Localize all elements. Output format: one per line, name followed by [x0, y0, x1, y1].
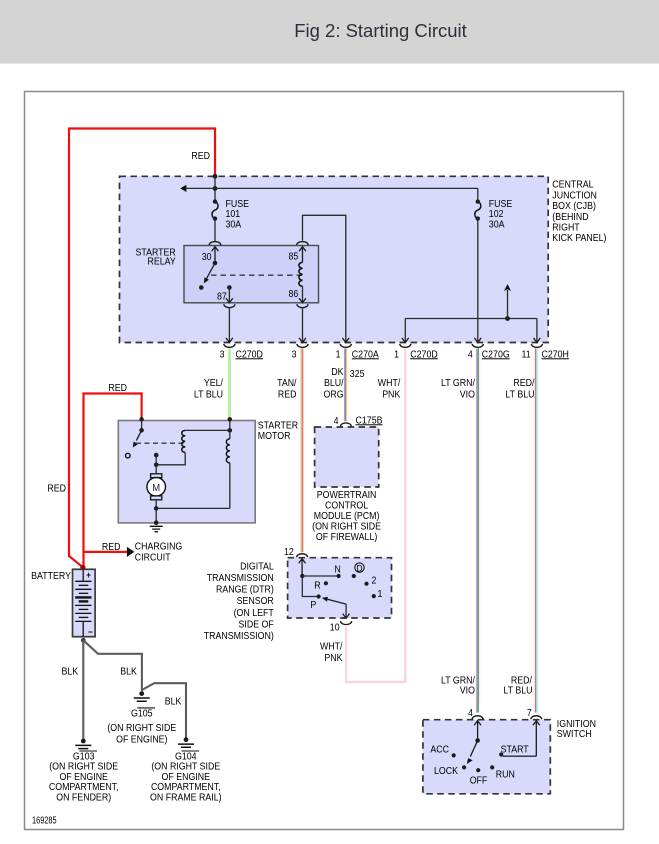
- fuse F102: [475, 199, 481, 220]
- svg-text:M: M: [152, 482, 160, 494]
- pin 86 connector arc: [297, 304, 308, 307]
- wire to P contact: [302, 576, 318, 597]
- motor terminal top: [151, 474, 162, 478]
- svg-text:BLK: BLK: [165, 696, 182, 707]
- wire 87 to C270D: [228, 308, 230, 341]
- svg-text:Fig 2: Starting Circuit: Fig 2: Starting Circuit: [294, 20, 467, 41]
- ground G104: [178, 737, 194, 747]
- wire pull-in bottom: [156, 452, 185, 464]
- svg-text:DIGITAL: DIGITAL: [240, 561, 274, 572]
- svg-text:RANGE (DTR): RANGE (DTR): [216, 585, 274, 596]
- svg-text:OF ENGINE): OF ENGINE): [116, 735, 167, 746]
- svg-text:30A: 30A: [226, 219, 242, 230]
- svg-text:DK: DK: [331, 367, 344, 378]
- wire feed to fuse 101: [214, 176, 216, 241]
- hold-in winding: [226, 439, 229, 463]
- pin 85 connector arc: [297, 242, 309, 245]
- contact P: [317, 594, 321, 598]
- svg-text:RELAY: RELAY: [148, 257, 177, 268]
- header bar: [0, 0, 659, 64]
- wire WHT/PNK: [346, 348, 405, 682]
- svg-text:VIO: VIO: [460, 390, 476, 401]
- solenoid dashed link: [136, 442, 184, 444]
- svg-text:WHT/: WHT/: [378, 378, 401, 389]
- svg-text:N: N: [334, 565, 340, 576]
- svg-text:−: −: [88, 627, 93, 637]
- svg-text:ACC: ACC: [430, 745, 449, 756]
- motor terminal bottom: [151, 496, 162, 500]
- svg-text:1: 1: [377, 589, 382, 600]
- pin 7 arrow: [533, 721, 540, 757]
- svg-text:BLK: BLK: [120, 667, 137, 678]
- svg-text:PNK: PNK: [324, 653, 343, 664]
- wire bus to C270H pin 11: [536, 319, 538, 342]
- svg-text:C270D: C270D: [410, 349, 437, 360]
- svg-text:MODULE (PCM): MODULE (PCM): [314, 511, 380, 522]
- svg-text:OFF: OFF: [470, 775, 488, 786]
- svg-text:RIGHT: RIGHT: [552, 223, 579, 234]
- svg-text:3: 3: [292, 349, 297, 360]
- svg-text:1: 1: [336, 349, 341, 360]
- wire to N contact: [302, 575, 338, 577]
- ground G105: [134, 691, 150, 701]
- svg-text:LT GRN/: LT GRN/: [441, 378, 475, 389]
- svg-text:VIO: VIO: [460, 686, 476, 697]
- svg-text:30A: 30A: [489, 219, 505, 230]
- svg-text:YEL/: YEL/: [204, 378, 223, 389]
- svg-text:BLU/: BLU/: [324, 378, 344, 389]
- contact 1: [372, 594, 376, 598]
- pin 85 arrow: [299, 247, 306, 263]
- ignition switch arm: [470, 741, 477, 757]
- contact LOCK: [462, 765, 466, 769]
- svg-text:169285: 169285: [32, 815, 57, 826]
- wire DK BLU/ORG: [345, 348, 346, 421]
- svg-text:ON FRAME RAIL): ON FRAME RAIL): [150, 792, 222, 803]
- svg-text:TAN/: TAN/: [277, 378, 297, 389]
- contact ACC: [452, 753, 456, 757]
- svg-text:JUNCTION: JUNCTION: [552, 190, 597, 201]
- solenoid switch contact: [126, 453, 131, 458]
- outer frame: [25, 92, 624, 830]
- svg-text:SENSOR: SENSOR: [237, 596, 274, 607]
- contact OFF: [476, 768, 480, 772]
- CJB bus to connectors: [405, 318, 537, 320]
- svg-text:RED: RED: [47, 484, 66, 495]
- relay internal dashed link: [211, 274, 303, 276]
- svg-text:LOCK: LOCK: [434, 766, 458, 777]
- svg-text:C175B: C175B: [356, 415, 383, 426]
- node bus tap: [505, 316, 510, 321]
- svg-text:G105: G105: [131, 708, 153, 719]
- relay switch pivot: [213, 261, 218, 266]
- svg-text:(ON LEFT: (ON LEFT: [234, 608, 274, 619]
- svg-text:CHARGING: CHARGING: [135, 541, 183, 552]
- node motor feed: [154, 463, 159, 468]
- starter motor M1: [118, 421, 255, 523]
- wire motor to ground: [155, 500, 157, 523]
- pin 87 wire and arrow: [228, 288, 230, 303]
- svg-text:10: 10: [330, 623, 340, 634]
- svg-text:+: +: [86, 570, 91, 580]
- svg-text:RED: RED: [278, 390, 297, 401]
- wire pin 7 to START: [503, 755, 537, 757]
- svg-text:CIRCUIT: CIRCUIT: [135, 552, 171, 563]
- pin 7 connector arc: [531, 716, 542, 719]
- solenoid switch arm: [136, 430, 141, 440]
- pin 4 arrow: [474, 721, 481, 741]
- svg-text:4: 4: [334, 416, 339, 427]
- svg-text:12: 12: [284, 547, 294, 558]
- svg-text:BATTERY: BATTERY: [31, 571, 71, 582]
- svg-text:LT BLU: LT BLU: [503, 686, 532, 697]
- svg-text:C270G: C270G: [482, 349, 510, 360]
- svg-text:CONTROL: CONTROL: [325, 501, 369, 512]
- node battery positive: [80, 565, 85, 570]
- wire bus to C270D pin 1: [404, 319, 406, 342]
- pin 30 arrow: [212, 247, 219, 263]
- svg-text:(BEHIND: (BEHIND: [552, 212, 588, 223]
- node pin12 branch: [300, 574, 304, 578]
- wire wiper to pin 10: [345, 604, 347, 617]
- solenoid switch pivot: [139, 428, 144, 433]
- svg-text:1: 1: [394, 349, 399, 360]
- node yel wire junction: [228, 428, 233, 433]
- svg-text:START: START: [501, 745, 529, 756]
- svg-text:TRANSMISSION): TRANSMISSION): [204, 631, 274, 642]
- relay coil: [299, 262, 303, 286]
- pin 4 connector arc: [472, 716, 483, 719]
- wire TAN/RED: [301, 348, 302, 552]
- svg-text:SWITCH: SWITCH: [557, 729, 592, 740]
- svg-text:RED: RED: [102, 542, 121, 553]
- node battery negative junction: [81, 638, 86, 643]
- connector arcs below CJB: [224, 344, 235, 347]
- svg-text:LT BLU: LT BLU: [505, 390, 534, 401]
- wire BLK to G103: [82, 640, 84, 739]
- contact R: [324, 581, 328, 585]
- node red entry: [139, 417, 143, 421]
- svg-text:ORG: ORG: [324, 390, 344, 401]
- wire winding top link: [185, 429, 230, 431]
- wire motor feed: [155, 455, 157, 474]
- svg-text:4: 4: [468, 708, 473, 719]
- digital transmission range sensor DTR: [288, 558, 392, 618]
- contact START: [499, 752, 503, 756]
- svg-text:325: 325: [350, 369, 365, 380]
- svg-text:87: 87: [217, 292, 227, 303]
- wire entry to pivot: [141, 419, 143, 430]
- svg-text:11: 11: [522, 349, 531, 360]
- node pin 87: [227, 285, 232, 290]
- wire RED starter solenoid feed: [84, 394, 142, 569]
- fuse F101: [212, 199, 218, 220]
- svg-text:KICK PANEL): KICK PANEL): [552, 233, 606, 244]
- wire 86 to C270D pin 3: [302, 308, 304, 341]
- svg-text:CENTRAL: CENTRAL: [552, 180, 594, 191]
- motor M: [147, 478, 166, 497]
- svg-text:86: 86: [289, 289, 299, 300]
- relay switch arm: [206, 263, 215, 279]
- svg-text:POWERTRAIN: POWERTRAIN: [317, 490, 377, 501]
- arrow bus continues up: [507, 290, 509, 319]
- wire BLK to G105: [83, 640, 142, 691]
- node bus junction: [213, 186, 218, 191]
- ground G103: [75, 739, 91, 749]
- svg-text:R: R: [314, 580, 320, 591]
- svg-text:RED/: RED/: [513, 378, 534, 389]
- relay switch contact: [199, 285, 204, 290]
- svg-text:BLK: BLK: [62, 667, 79, 678]
- svg-text:85: 85: [289, 252, 299, 263]
- svg-text:(ON RIGHT SIDE: (ON RIGHT SIDE: [107, 723, 176, 734]
- node red feed entry: [213, 174, 218, 179]
- svg-text:3: 3: [220, 349, 225, 360]
- wire 85 to C270A: [303, 215, 346, 341]
- DTR wiper arm: [328, 599, 347, 604]
- wire RED charging branch: [84, 551, 127, 553]
- ignition switch: [423, 720, 550, 794]
- svg-text:30: 30: [202, 252, 212, 263]
- svg-text:(ON RIGHT SIDE: (ON RIGHT SIDE: [312, 521, 381, 532]
- svg-text:D: D: [356, 563, 362, 574]
- node motor ground junction: [154, 506, 159, 511]
- svg-text:C270H: C270H: [542, 349, 569, 360]
- contact D: [352, 574, 356, 578]
- pin 4 connector arc C175B: [340, 423, 351, 426]
- svg-text:P: P: [310, 600, 316, 611]
- svg-text:SIDE OF: SIDE OF: [239, 619, 274, 630]
- pin 10 connector arc: [341, 621, 352, 624]
- arrow to charging circuit: [127, 547, 134, 557]
- svg-text:7: 7: [527, 708, 532, 719]
- svg-text:4: 4: [468, 349, 473, 360]
- svg-text:OF FIREWALL): OF FIREWALL): [316, 532, 377, 543]
- wire fuse102 to C270G pin 4: [477, 319, 479, 342]
- wire fuse 102 down to bus: [477, 188, 479, 318]
- ignition switch pivot: [475, 738, 480, 743]
- contact RUN: [490, 765, 494, 769]
- wire YEL/LT BLU: [229, 348, 230, 420]
- pin 87 connector arc: [224, 304, 235, 307]
- svg-text:RED: RED: [108, 383, 127, 394]
- pull-in winding: [182, 430, 185, 452]
- arrow bus continues left: [180, 185, 186, 192]
- node yel entry: [228, 417, 232, 421]
- svg-text:C270D: C270D: [236, 349, 263, 360]
- svg-text:ON FENDER): ON FENDER): [56, 792, 111, 803]
- powertrain control module PCM: [315, 427, 379, 487]
- svg-text:2: 2: [371, 575, 376, 586]
- svg-text:WHT/: WHT/: [320, 641, 343, 652]
- wire ground link to hold-in: [156, 507, 230, 509]
- wire BLK to G104: [142, 683, 186, 737]
- contact 2: [364, 582, 368, 586]
- starter relay K1: [184, 246, 319, 303]
- node solenoid output: [154, 453, 159, 458]
- svg-text:PNK: PNK: [382, 390, 401, 401]
- svg-text:STARTER: STARTER: [258, 421, 298, 432]
- wire hold-in line: [229, 421, 231, 509]
- svg-text:RUN: RUN: [496, 770, 515, 781]
- ground starter motor: [150, 520, 163, 531]
- central junction box CJB: [120, 176, 549, 342]
- svg-text:BOX (CJB): BOX (CJB): [552, 201, 596, 212]
- pin 30 connector arc: [209, 242, 221, 245]
- wire RED/LT BLU: [536, 348, 537, 712]
- wire LT GRN/VIO: [477, 348, 478, 712]
- pin 12 connector arc: [297, 554, 308, 557]
- battery: [73, 569, 96, 636]
- pin 86 wire and arrow: [302, 286, 304, 302]
- svg-text:LT BLU: LT BLU: [194, 390, 223, 401]
- wire RED battery feed top: [69, 129, 215, 558]
- svg-text:RED: RED: [191, 151, 210, 162]
- wire bus to fuse 102: [186, 187, 478, 189]
- label D circled: [355, 563, 364, 572]
- svg-text:MOTOR: MOTOR: [258, 431, 291, 442]
- contact N: [337, 574, 341, 578]
- pin 12 arrow: [299, 559, 306, 576]
- svg-text:TRANSMISSION: TRANSMISSION: [207, 573, 274, 584]
- svg-text:C270A: C270A: [352, 349, 379, 360]
